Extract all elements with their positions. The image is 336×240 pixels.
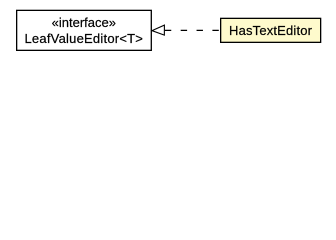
class box HasTextEditor xyxy=(221,18,321,42)
svg-text:HasTextEditor: HasTextEditor xyxy=(229,23,313,38)
svg-text:LeafValueEditor<T>: LeafValueEditor<T> xyxy=(24,31,143,46)
svg-text:«interface»: «interface» xyxy=(52,15,116,30)
dashed realization line xyxy=(165,29,220,31)
interface box LeafValueEditor xyxy=(17,10,152,50)
realization arrowhead (hollow triangle) xyxy=(152,25,164,35)
